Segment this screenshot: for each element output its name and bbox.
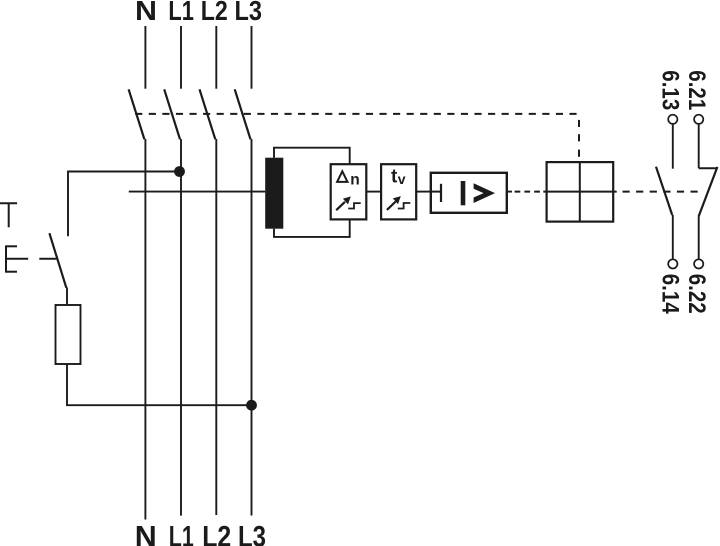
aux wire 6.13 upper (672, 125, 674, 169)
aux NO contact blade (656, 167, 672, 215)
Delta symbol (337, 171, 347, 182)
wire L1 lower segment (180, 139, 182, 516)
sensing wire into CT (129, 191, 265, 193)
U3 output stub (507, 191, 512, 193)
wire U2 to U3 (416, 191, 431, 193)
svg-text:L1: L1 (169, 521, 194, 546)
aux NC contact stub (699, 167, 717, 169)
aux terminal 6.14 circle (668, 259, 677, 268)
wire L2 lower segment (215, 139, 217, 515)
pole contact blade L1 (164, 89, 180, 139)
wire L3 lower segment (251, 139, 253, 516)
aux wire 6.14 lower (672, 215, 674, 259)
aux wire 6.21 upper (698, 125, 700, 169)
svg-text:n: n (350, 172, 359, 189)
wire resistor to bottom (67, 364, 252, 405)
detector box U1 (Delta n) (331, 164, 367, 219)
dashed link relay to aux contacts (623, 191, 699, 193)
CT secondary loop top (274, 148, 350, 165)
relay box K1 (547, 162, 614, 222)
U3 input wire (431, 191, 441, 193)
svg-text:v: v (398, 171, 406, 187)
U2 arrow symbol (387, 196, 401, 210)
test wire top horizontal (68, 172, 180, 237)
aux NC contact blade (699, 167, 718, 217)
K1 vertical divider (579, 162, 581, 222)
wire blade to resistor (66, 288, 68, 306)
overcurrent release box U3 (I>) (431, 173, 507, 213)
aux terminal 6.13 circle (668, 115, 677, 124)
node junction on L1 (174, 166, 185, 177)
wire L3 top segment (251, 26, 253, 89)
U1 step symbol (348, 203, 361, 208)
svg-text:6.21: 6.21 (683, 70, 710, 110)
wire U1 to U2 (366, 191, 381, 193)
node junction on L3 (246, 400, 257, 411)
U3 input T-bar (440, 184, 442, 202)
U2 step symbol (398, 203, 411, 209)
terminal symbol E (6, 245, 17, 272)
trip linkage dashed horizontal (135, 113, 577, 115)
svg-text:L2: L2 (202, 521, 231, 546)
svg-text:L2: L2 (201, 0, 228, 26)
svg-text:N: N (135, 521, 157, 546)
trip linkage dashed vertical (578, 120, 580, 157)
CT core (black bar) (265, 158, 283, 229)
svg-text:6.13: 6.13 (657, 70, 684, 110)
svg-text:L3: L3 (238, 521, 266, 546)
aux terminal 6.22 circle (694, 259, 703, 268)
pole contact blade L3 (235, 89, 251, 139)
pole contact blade N (129, 89, 145, 139)
svg-text:L3: L3 (235, 0, 263, 26)
svg-text:N: N (135, 0, 157, 26)
CT secondary loop bottom (274, 219, 350, 237)
time-delay box U2 (tv) (381, 164, 416, 219)
svg-text:L1: L1 (168, 0, 194, 26)
aux terminal 6.21 circle (694, 115, 703, 124)
wire N lower segment (144, 139, 146, 520)
wire L2 top segment (215, 26, 217, 89)
svg-text:6.22: 6.22 (683, 274, 710, 314)
test linkage dashes (6, 258, 56, 260)
terminal symbol T (0, 203, 17, 227)
wire N top segment (144, 26, 146, 89)
K1 horizontal divider (543, 191, 616, 193)
aux wire 6.22 lower (698, 217, 700, 259)
glyph I (461, 181, 466, 205)
test switch blade (49, 233, 66, 288)
svg-text:6.14: 6.14 (657, 274, 684, 315)
test resistor (56, 305, 81, 364)
wire L1 top segment (180, 26, 182, 89)
glyph greater-than (474, 183, 495, 203)
U1 arrow symbol (336, 196, 351, 210)
pole contact blade L2 (200, 89, 216, 139)
dashed link U3 to relay (515, 191, 544, 193)
